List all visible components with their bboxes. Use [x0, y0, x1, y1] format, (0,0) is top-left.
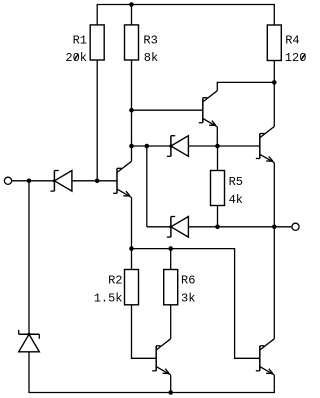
diode D4 (Schottky to ground): [19, 330, 40, 352]
wire R4 bottom lead: [273, 61, 275, 83]
svg-text:120: 120: [285, 51, 307, 65]
svg-text:R2: R2: [108, 273, 122, 287]
svg-text:3k: 3k: [181, 292, 195, 306]
terminal output: [292, 223, 299, 230]
wire y=248.6 row to Q5 base: [132, 249, 260, 359]
wire Q3 emitter down to Q5 collector: [273, 163, 275, 339]
svg-text:4k: 4k: [229, 193, 243, 207]
resistor R4: [267, 25, 281, 61]
resistor R5: [211, 171, 225, 206]
wire Q2 collector lead up: [131, 146, 133, 161]
transistor Q4: [152, 339, 171, 375]
wire R2 bottom to Q4 base: [132, 305, 157, 359]
svg-text:R1: R1: [73, 34, 87, 48]
node R6 top junction: [168, 246, 173, 251]
svg-text:R5: R5: [229, 175, 243, 189]
wire Q1 collector to R4 junction: [217, 82, 274, 90]
wire node row y=146 left segment: [132, 145, 171, 147]
svg-text:R4: R4: [285, 34, 299, 48]
svg-text:R3: R3: [143, 34, 157, 48]
transistor Q2: [113, 161, 132, 197]
node input branch junction: [27, 179, 32, 184]
resistor R2: [125, 270, 139, 305]
transistor Q5: [256, 339, 274, 375]
wire diode D2 to Q3 base: [188, 145, 259, 147]
node R5 bottom junction: [215, 225, 220, 230]
svg-text:R6: R6: [181, 273, 195, 287]
terminal input: [4, 177, 11, 184]
resistor R3: [125, 25, 139, 60]
svg-text:8k: 8k: [144, 51, 158, 65]
wire Q2 emitter lead down: [131, 197, 133, 248]
wire R6 bottom / Q4 collector: [170, 305, 172, 339]
wire R3 top lead: [131, 5, 133, 25]
transistor Q3: [256, 127, 274, 163]
diode D1 (Schottky input): [50, 171, 72, 192]
wire R1 bottom lead: [96, 60, 98, 181]
wire R5 top lead: [217, 146, 219, 171]
node ground rail junction: [168, 390, 173, 395]
wire D3 to output: [188, 226, 291, 228]
wire Q1 base: [132, 109, 203, 111]
diode D2 (Schottky): [167, 136, 189, 157]
node R3 / Q1 base junction: [129, 108, 134, 113]
slash of zero in 20k: [74, 54, 78, 61]
wire Q3 collector lead up: [273, 82, 275, 126]
wire D1 to Q2 base: [72, 180, 117, 182]
wire y=226.8 row left segment: [147, 226, 171, 228]
resistor R1: [90, 25, 104, 60]
diode D3 (Schottky): [167, 217, 189, 238]
node R5 top / Q1 emitter junction: [215, 144, 220, 149]
transistor Q1: [199, 91, 218, 127]
slash of zero in 120: [301, 54, 305, 61]
wire Q5 emitter lead down: [273, 375, 275, 393]
wire R3 bottom lead: [131, 60, 133, 146]
node Q2 emitter / R2 top junction: [129, 246, 134, 251]
wire top rail Vcc: [97, 5, 274, 26]
node R3 bottom / Q2 collector junction: [129, 144, 134, 149]
wire R5 bottom lead: [217, 206, 219, 227]
node top rail junction: [129, 2, 134, 7]
wire branch down from y=146 row: [146, 146, 148, 227]
wire left input column down: [29, 181, 275, 393]
wire R2 top lead: [131, 249, 133, 270]
node R4 / Q1 / Q3 collector junction: [272, 80, 277, 85]
node branch junction: [145, 144, 150, 149]
svg-text:1.5k: 1.5k: [94, 292, 123, 306]
wire Q4 emitter lead down: [170, 375, 172, 393]
node R1 bottom junction: [95, 179, 100, 184]
wire Q1 emitter lead down: [216, 127, 218, 146]
node output junction: [272, 225, 277, 230]
wire R6 top lead: [170, 249, 172, 270]
wire input to D1: [12, 180, 55, 182]
resistor R6: [164, 270, 178, 305]
